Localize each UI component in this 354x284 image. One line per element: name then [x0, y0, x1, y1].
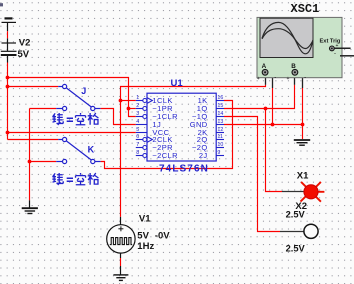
svg-text:-: - — [274, 75, 276, 81]
switch K terminals — [63, 137, 95, 163]
switch J terminals — [63, 84, 95, 110]
op-amp XSC1 oscilloscope box — [257, 17, 342, 77]
wire GND pin13 net — [224, 124, 303, 126]
clock source V1 — [107, 225, 135, 253]
svg-text:K: K — [88, 144, 95, 154]
svg-text:15: 15 — [217, 103, 223, 109]
svg-text:X1: X1 — [297, 170, 309, 181]
Ext Trig connector — [330, 46, 335, 51]
svg-text:A: A — [262, 63, 267, 70]
svg-text:2: 2 — [136, 103, 139, 109]
op-amp U1 74LS76N chip body — [147, 93, 216, 161]
page corner mark — [0, 3, 3, 6]
wire A+ black top — [265, 75, 267, 85]
wire A- drop — [272, 88, 274, 125]
svg-text:V1: V1 — [139, 214, 151, 225]
ground left — [22, 208, 38, 213]
node 1Q X1 junction — [264, 107, 268, 111]
svg-text:12: 12 — [217, 127, 223, 133]
svg-text:+: + — [287, 76, 290, 82]
svg-text:~2CLR: ~2CLR — [152, 151, 178, 160]
node rail-h1 junction — [6, 76, 10, 80]
svg-text:-: - — [304, 75, 306, 81]
label key=space K — [52, 173, 98, 185]
wire B+ black top — [294, 75, 296, 85]
switch J lever — [66, 88, 91, 107]
wire 1Q pin15 to scope B — [224, 85, 295, 109]
chip pins left — [136, 101, 224, 156]
chip pin names — [152, 96, 207, 160]
chip clock triangles — [147, 98, 152, 143]
wire 5V to K top throw — [8, 139, 59, 141]
svg-text:7: 7 — [136, 142, 139, 148]
svg-text:U1: U1 — [171, 78, 184, 89]
svg-text:+: + — [336, 43, 339, 49]
wire GND rail vertical — [29, 109, 31, 201]
switch J stubs — [56, 87, 100, 109]
node clock pin1 junction — [119, 99, 123, 103]
node GND B- junction — [301, 123, 305, 127]
svg-text:V2: V2 — [19, 37, 31, 48]
svg-text:10: 10 — [217, 142, 223, 148]
wire branch to pin2 — [129, 108, 136, 110]
switch K stubs — [56, 140, 100, 162]
wire 5V to J top throw — [8, 86, 59, 88]
svg-text:2J: 2J — [199, 151, 208, 160]
node rail-Jtop junction — [6, 85, 10, 89]
probe X2 — [304, 224, 318, 238]
wire K common under chip to 1K pin16 — [101, 101, 233, 169]
node rail-VCC junction — [6, 131, 10, 135]
svg-text:9: 9 — [217, 150, 220, 156]
wire K bottom throw — [30, 161, 57, 163]
oscilloscope sine waves — [262, 22, 313, 53]
node pin2 branch junction — [127, 107, 131, 111]
wire clock net V1 to 1CLK and scope A — [121, 85, 266, 217]
svg-text:3: 3 — [136, 111, 139, 117]
wire J bottom throw — [30, 108, 57, 110]
wire ~1Q pin14 to probe X2 — [224, 117, 280, 232]
wire X1 black lead — [282, 191, 304, 193]
svg-text:6: 6 — [136, 134, 139, 140]
wire battery internal red segment — [7, 31, 9, 38]
Ext Trig stubs — [334, 47, 350, 49]
ground right — [294, 140, 310, 145]
svg-text:-0V: -0V — [155, 231, 170, 242]
svg-text:1: 1 — [136, 95, 139, 101]
battery V2 — [1, 18, 17, 62]
wire X2 black lead — [280, 231, 304, 233]
svg-text:13: 13 — [217, 119, 223, 125]
wire B- drop — [302, 88, 304, 125]
oscilloscope screen — [260, 18, 313, 57]
wire J common to 1J pin4 — [101, 109, 136, 125]
svg-text:5V: 5V — [18, 49, 30, 60]
svg-text:11: 11 — [217, 134, 223, 140]
svg-text:2.5V: 2.5V — [286, 244, 306, 254]
wire 5V rail vertical — [7, 63, 9, 140]
wire 5V to VCC pin5 — [8, 132, 136, 134]
wire V1 top lead — [120, 217, 122, 225]
chip pin numbers — [136, 95, 223, 156]
svg-text:5: 5 — [136, 127, 139, 133]
chip pin bubbles — [143, 99, 147, 158]
ground V1 — [113, 275, 128, 281]
svg-text:2.5V: 2.5V — [286, 210, 306, 220]
wire GND to ground right — [302, 125, 304, 140]
svg-text:4: 4 — [136, 119, 139, 125]
wire branch to pin1 — [121, 100, 136, 102]
svg-text:16: 16 — [217, 95, 223, 101]
wire 1Q to probe X1 — [266, 109, 283, 192]
svg-text:-: - — [334, 51, 336, 57]
svg-text:8: 8 — [136, 150, 139, 156]
svg-text:1Hz: 1Hz — [137, 241, 154, 252]
wire h1 5V to PR/CLR — [8, 78, 136, 117]
svg-text:14: 14 — [217, 111, 223, 117]
svg-text:74LS76N: 74LS76N — [159, 164, 209, 175]
switch K lever — [66, 141, 91, 160]
node GND A- junction — [271, 123, 275, 127]
probe X1 lit — [301, 182, 325, 202]
wire V1 bottom leads — [120, 253, 122, 258]
label key=space J — [52, 113, 98, 125]
svg-text:XSC1: XSC1 — [291, 2, 320, 16]
svg-text:J: J — [81, 86, 86, 96]
svg-text:B: B — [291, 63, 296, 70]
node K bottom junction — [28, 160, 32, 164]
svg-text:+: + — [257, 76, 260, 82]
